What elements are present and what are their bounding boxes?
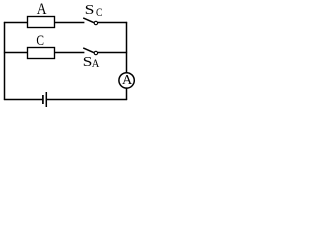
ammeter A circle bbox=[119, 73, 134, 88]
switch SC contact circle bbox=[94, 21, 97, 24]
wire top row middle segment bbox=[55, 22, 85, 24]
wire left vertical bbox=[4, 22, 6, 100]
svg-text:A: A bbox=[92, 58, 100, 70]
wire bottom right segment bbox=[47, 99, 127, 101]
wire middle row left segment bbox=[4, 52, 28, 54]
wire right vertical bbox=[126, 22, 128, 100]
switch SA lever bbox=[83, 48, 94, 53]
wire bottom left segment bbox=[4, 99, 42, 101]
svg-text:A: A bbox=[37, 1, 47, 18]
wire middle row middle segment bbox=[55, 52, 85, 54]
wire top row left segment bbox=[4, 22, 28, 24]
switch SA contact circle bbox=[94, 51, 97, 54]
wire top row right segment bbox=[98, 22, 127, 24]
svg-text:C: C bbox=[36, 33, 44, 49]
svg-text:S: S bbox=[85, 2, 95, 17]
switch SC lever bbox=[83, 18, 94, 23]
wire middle row right segment bbox=[98, 52, 127, 54]
svg-text:C: C bbox=[96, 5, 103, 19]
capacitor box C bbox=[28, 48, 55, 59]
resistor box A bbox=[28, 17, 55, 28]
battery long plate bbox=[45, 92, 47, 107]
battery short plate bbox=[42, 95, 44, 104]
svg-text:A: A bbox=[122, 72, 132, 87]
